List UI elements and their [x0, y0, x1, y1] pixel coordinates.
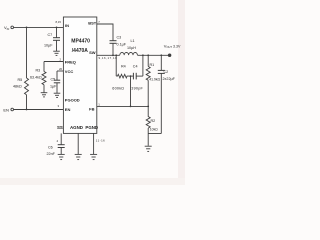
ground C5	[54, 92, 61, 94]
svg-text:/4470A: /4470A	[72, 48, 89, 54]
svg-text:MP4470: MP4470	[71, 38, 90, 44]
svg-text:10µF: 10µF	[44, 44, 53, 48]
node junction rail/left leg	[115, 54, 117, 56]
svg-text:C7: C7	[48, 33, 53, 37]
node junction R5/EN	[26, 109, 28, 111]
wire C2 top lead	[160, 55, 162, 70]
svg-text:VOUT 3.3V: VOUT 3.3V	[164, 44, 181, 50]
wire SS pin lead	[60, 133, 62, 144]
wire EN terminal to EN pin	[14, 109, 64, 111]
capacitor C4	[132, 73, 134, 80]
wire C7 top lead	[56, 27, 58, 37]
wire R4C4 left leg	[115, 55, 117, 76]
node junction FB/R1/R2	[147, 106, 149, 108]
svg-text:41.9kΩ: 41.9kΩ	[149, 78, 160, 82]
svg-text:63.4kΩ: 63.4kΩ	[30, 76, 42, 80]
wire C6 bottom lead	[60, 148, 62, 155]
svg-text:390pF: 390pF	[131, 87, 143, 91]
inductor L1	[120, 53, 138, 56]
svg-text:48kΩ: 48kΩ	[13, 85, 22, 89]
svg-text:PGND: PGND	[85, 125, 98, 130]
svg-text:IN: IN	[65, 23, 69, 28]
op-amp U1 (regulator IC MP4470 body)	[63, 17, 96, 133]
node junction rail/R1	[147, 54, 149, 56]
wire VCC pin	[57, 70, 63, 72]
node VOUT terminal	[168, 54, 171, 57]
wire VOUT rail	[137, 54, 168, 56]
svg-text:R3: R3	[36, 69, 41, 73]
svg-text:10kΩ: 10kΩ	[150, 128, 158, 132]
svg-text:SS: SS	[57, 125, 63, 130]
capacitor C6	[58, 144, 65, 146]
node junction R4/C4	[130, 75, 132, 77]
svg-text:8,15: 8,15	[56, 20, 62, 24]
wire C5 bottom lead	[56, 83, 58, 93]
svg-text:10µH: 10µH	[127, 46, 136, 50]
wire R1 bottom lead	[147, 80, 149, 106]
wire C7 bottom lead	[56, 40, 58, 51]
node junction rail/C2	[160, 54, 162, 56]
wire PGND pin lead	[93, 133, 95, 154]
svg-text:FB: FB	[89, 107, 94, 112]
wire R5 bottom lead	[26, 95, 28, 110]
node junction C7/VIN	[56, 27, 58, 29]
svg-text:R1: R1	[150, 63, 155, 67]
node junction FB line	[130, 106, 132, 108]
resistor R3	[42, 72, 46, 85]
svg-text:C2: C2	[164, 70, 169, 74]
svg-text:BST: BST	[88, 21, 97, 26]
svg-text:AGND: AGND	[70, 125, 83, 130]
wire C4 to right leg	[136, 75, 143, 77]
capacitor C5	[54, 79, 60, 81]
node junction R5/VIN	[26, 27, 28, 29]
svg-text:SW: SW	[89, 50, 96, 55]
wire AGND pin lead	[77, 133, 79, 154]
capacitor C3	[110, 40, 117, 42]
svg-text:C6: C6	[48, 145, 53, 149]
wire R4C4 junction down to FB	[130, 76, 132, 106]
wire R4 to C4	[129, 75, 133, 77]
wire ground stub	[147, 134, 149, 146]
ground PGND	[90, 153, 97, 155]
wire R1 top lead	[147, 55, 149, 66]
svg-text:9,16,17,18: 9,16,17,18	[99, 56, 118, 60]
wire R4C4 right leg	[142, 55, 144, 76]
svg-text:11-16: 11-16	[96, 139, 105, 143]
wire R2 bottom lead	[147, 128, 149, 133]
svg-text:1µF: 1µF	[50, 85, 57, 89]
resistor R4	[116, 74, 129, 78]
wire C5 top lead	[56, 71, 58, 80]
node EN terminal	[11, 108, 14, 111]
wire FB pin line	[97, 105, 148, 107]
svg-text:PGOOD: PGOOD	[65, 97, 80, 102]
resistor R5	[25, 78, 29, 95]
capacitor C7	[53, 37, 60, 39]
svg-text:0.1µF: 0.1µF	[117, 43, 127, 47]
ground AGND	[75, 153, 82, 155]
svg-text:FREQ: FREQ	[65, 59, 76, 64]
ground SS	[58, 153, 65, 155]
resistor R1	[146, 66, 150, 80]
wire C3 to SW rail	[112, 43, 114, 55]
ground C7	[53, 50, 60, 52]
svg-text:C5: C5	[51, 78, 56, 82]
node junction C3/SW	[112, 54, 114, 56]
svg-text:20: 20	[59, 67, 63, 71]
svg-text:C3: C3	[117, 36, 122, 40]
ground R3	[41, 92, 48, 94]
node VIN terminal	[11, 26, 14, 29]
ground R2	[145, 145, 152, 147]
wire R2/C2 bottom link	[148, 133, 161, 135]
svg-text:R5: R5	[18, 78, 23, 82]
wire R5 top lead	[26, 27, 28, 78]
wire BST pin	[97, 24, 113, 41]
resistor R2	[146, 106, 150, 128]
svg-text:600kΩ: 600kΩ	[112, 87, 124, 91]
wire C2 bottom lead	[160, 73, 162, 133]
wire SW pin rail	[97, 54, 120, 56]
svg-text:EN: EN	[65, 107, 71, 112]
page background	[0, 0, 185, 185]
wire R3 bottom lead	[43, 85, 45, 93]
svg-text:C4: C4	[133, 65, 138, 69]
svg-text:VCC: VCC	[65, 69, 74, 74]
node junction rail/right leg	[142, 54, 144, 56]
wire VIN to IN pin	[14, 26, 64, 28]
svg-text:22nF: 22nF	[47, 152, 56, 156]
wire FREQ pin	[44, 61, 63, 63]
wire R3 top lead	[43, 62, 45, 72]
svg-text:R4: R4	[121, 65, 126, 69]
svg-text:L1: L1	[131, 39, 135, 43]
svg-text:EN: EN	[3, 107, 9, 112]
svg-text:2x22µF: 2x22µF	[163, 77, 176, 81]
capacitor C2	[158, 69, 165, 71]
svg-text:R2: R2	[151, 119, 156, 123]
